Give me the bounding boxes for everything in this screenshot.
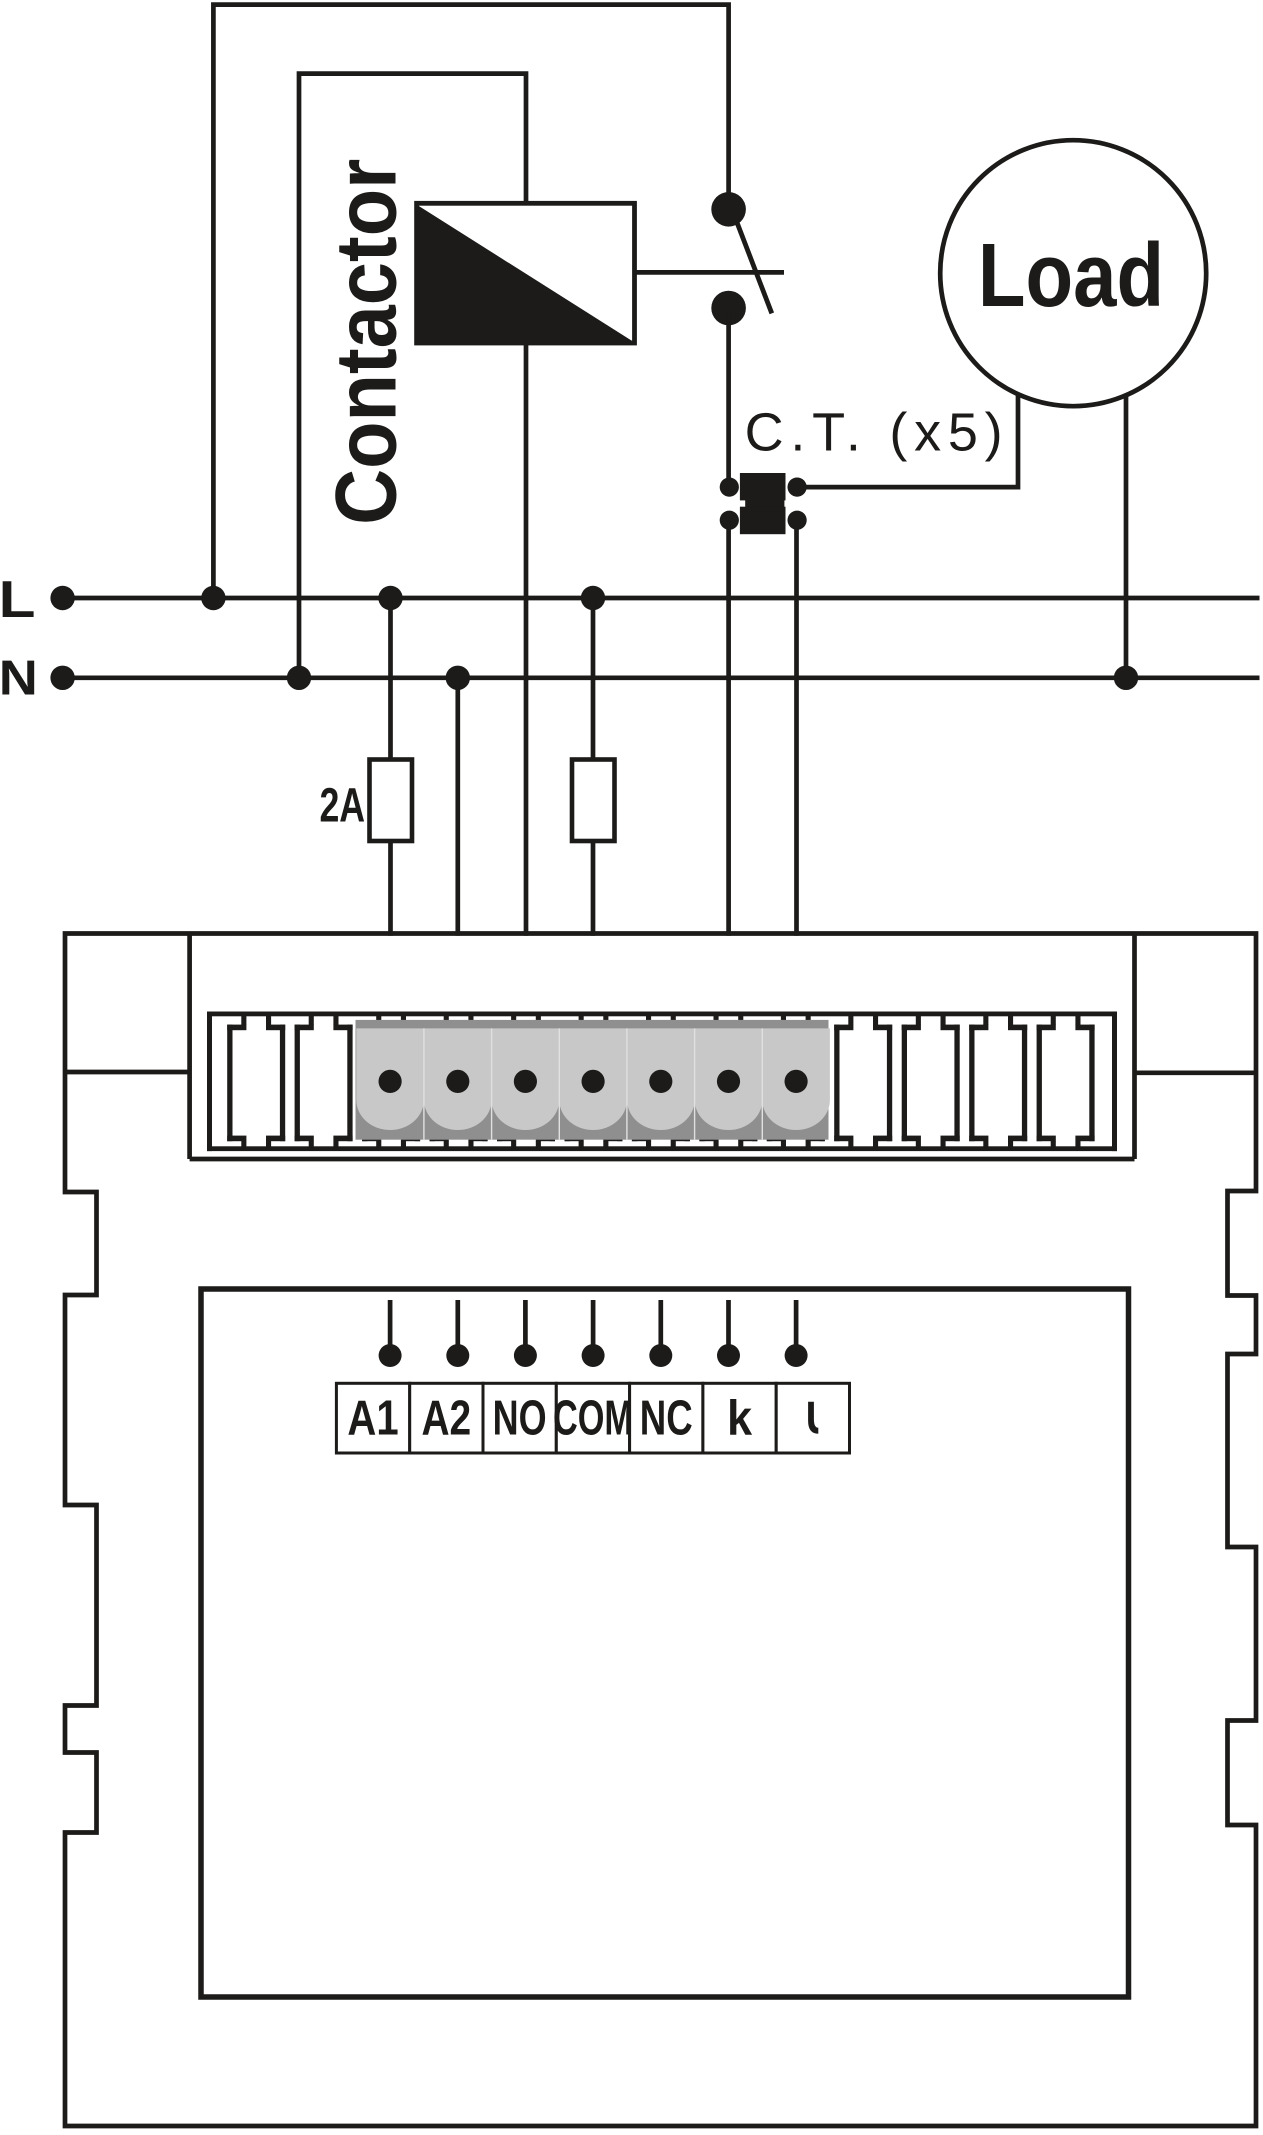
terminal slot 8 bbox=[699, 1016, 757, 1148]
terminal label box NO bbox=[483, 1383, 556, 1453]
current transformer C.T. secondary bar bbox=[740, 507, 786, 535]
terminal label text l (curved foot) bbox=[808, 1402, 818, 1434]
contactor coil K1 box bbox=[417, 203, 635, 343]
connector cell tongue COM bbox=[559, 1028, 627, 1130]
pin dot A1 bbox=[379, 1344, 402, 1367]
junction L / fuse F2 branch bbox=[581, 586, 605, 610]
pin dot NO bbox=[514, 1344, 537, 1367]
connector cell separator 4 bbox=[626, 1028, 627, 1139]
terminal slot 9 bbox=[767, 1016, 825, 1148]
current transformer C.T. primary bar bbox=[740, 473, 786, 500]
C.T. secondary right node dot bbox=[788, 511, 807, 530]
connector cell separator 5 bbox=[694, 1028, 695, 1139]
terminal screw dot NO bbox=[514, 1070, 537, 1093]
pin lead l bbox=[794, 1300, 799, 1356]
wire L rail bbox=[63, 596, 1260, 601]
connector cell tongue NC bbox=[627, 1028, 695, 1130]
svg-text:L: L bbox=[0, 570, 35, 628]
terminal slot 6 bbox=[565, 1016, 623, 1148]
load M1 circle bbox=[940, 140, 1206, 406]
connector cell tongue A1 bbox=[356, 1028, 424, 1130]
fuse F1 body bbox=[370, 760, 413, 842]
terminal label box l bbox=[776, 1383, 849, 1453]
wire N to device terminal A2 bbox=[455, 678, 460, 936]
device enclosure outline bbox=[65, 934, 1256, 2127]
svg-text:COM: COM bbox=[553, 1390, 633, 1444]
wire Load right side to N line bbox=[1124, 395, 1129, 678]
terminal label box COM bbox=[556, 1383, 629, 1453]
terminal slot 10 bbox=[834, 1016, 892, 1148]
pin dot l bbox=[785, 1344, 808, 1367]
junction N / A2 branch bbox=[446, 666, 470, 690]
junction N / inner loop bbox=[287, 666, 311, 690]
terminal cover bottom edge bbox=[190, 1157, 1135, 1162]
svg-text:NO: NO bbox=[493, 1391, 547, 1446]
terminal slot 11 bbox=[902, 1016, 960, 1148]
terminal label box A2 bbox=[410, 1383, 483, 1453]
svg-text:A2: A2 bbox=[421, 1391, 471, 1445]
pin lead COM bbox=[591, 1300, 596, 1356]
C.T. primary right node dot bbox=[788, 478, 807, 497]
terminal slot 7 bbox=[632, 1016, 690, 1148]
connector cell separator 2 bbox=[491, 1028, 492, 1139]
N rail left end dot bbox=[50, 666, 74, 690]
connector cell separator 1 bbox=[423, 1028, 424, 1139]
wire C.T. secondary right to device terminal l bbox=[794, 520, 799, 936]
wire coil bottom to device terminal NO bbox=[524, 342, 529, 936]
wire N rail bbox=[63, 675, 1260, 680]
connector cell tongue l bbox=[762, 1028, 830, 1130]
C.T. secondary left node dot bbox=[720, 511, 739, 530]
svg-text:NC: NC bbox=[640, 1391, 693, 1445]
wire C.T. secondary left to device terminal k bbox=[726, 520, 731, 936]
terminal label box k bbox=[703, 1383, 776, 1453]
svg-text:k: k bbox=[727, 1390, 753, 1445]
contact switch K1 top terminal dot bbox=[711, 192, 746, 227]
C.T. primary left node dot bbox=[720, 478, 739, 497]
pin dot NC bbox=[649, 1344, 672, 1367]
svg-text:Contactor: Contactor bbox=[319, 159, 415, 525]
pin lead A1 bbox=[388, 1300, 393, 1356]
terminal slot 3 bbox=[362, 1016, 420, 1148]
connector cell separator 6 bbox=[762, 1028, 763, 1139]
contact switch K1 bottom terminal dot bbox=[711, 291, 746, 326]
svg-text:A1: A1 bbox=[347, 1391, 398, 1446]
connector cell tongue NO bbox=[492, 1028, 560, 1130]
contact switch K1 blade (diagonal) bbox=[736, 220, 772, 314]
terminal strip frame bbox=[207, 1012, 1117, 1017]
wire inner loop: N line up, across, down to contactor coil top bbox=[299, 74, 526, 678]
terminal screw dot COM bbox=[582, 1070, 605, 1093]
pin lead NO bbox=[523, 1300, 528, 1356]
connector cell tongue A2 bbox=[424, 1028, 492, 1130]
fuse F2 body bbox=[572, 760, 615, 842]
junction L / outer loop bbox=[201, 586, 225, 610]
connector cell tongue k bbox=[695, 1028, 763, 1130]
pin lead k bbox=[726, 1300, 731, 1356]
terminal slot 13 bbox=[1037, 1016, 1095, 1148]
contactor coil K1 filled triangle bbox=[418, 206, 633, 342]
device inner panel box bbox=[201, 1289, 1129, 1997]
pin lead A2 bbox=[455, 1300, 460, 1356]
device top-right compartment shelf bbox=[1135, 1070, 1257, 1075]
junction L / fuse F1 branch bbox=[378, 586, 402, 610]
pin lead NC bbox=[658, 1300, 663, 1356]
L rail left end dot bbox=[50, 586, 74, 610]
svg-text:C.T. (x5): C.T. (x5) bbox=[745, 403, 1010, 463]
svg-text:2A: 2A bbox=[319, 778, 365, 831]
pin dot COM bbox=[582, 1344, 605, 1367]
current transformer C.T. core link bbox=[745, 499, 784, 509]
device top-right compartment divider bbox=[1132, 934, 1137, 1160]
pin dot A2 bbox=[446, 1344, 469, 1367]
svg-text:Load: Load bbox=[978, 225, 1164, 325]
junction N / Load branch bbox=[1114, 666, 1138, 690]
terminal slot 1 bbox=[227, 1016, 285, 1148]
svg-text:N: N bbox=[0, 650, 38, 705]
wire L to fuse F1 to device terminal A1 bbox=[388, 598, 393, 936]
terminal label box A1 bbox=[336, 1383, 409, 1453]
wire C.T. primary to Load bbox=[797, 394, 1018, 487]
device top-left compartment divider bbox=[187, 934, 192, 1160]
pin dot k bbox=[717, 1344, 740, 1367]
device top-left compartment shelf bbox=[65, 1070, 190, 1075]
terminal slot 4 bbox=[430, 1016, 488, 1148]
connector cell separator 3 bbox=[559, 1028, 560, 1139]
terminal screw dot k bbox=[717, 1070, 740, 1093]
terminal screw dot NC bbox=[649, 1070, 672, 1093]
terminal slot 2 bbox=[295, 1016, 353, 1148]
connector block dark base bbox=[356, 1020, 829, 1140]
terminal slot 5 bbox=[497, 1016, 555, 1148]
terminal screw dot l bbox=[785, 1070, 808, 1093]
wire switch bottom to C.T. primary bbox=[726, 308, 731, 487]
terminal screw dot A1 bbox=[379, 1070, 402, 1093]
wire outer loop: L line up, across top, down to switch bbox=[213, 5, 728, 598]
wire L to fuse F2 to device terminal COM bbox=[591, 598, 596, 936]
terminal label box NC bbox=[630, 1383, 703, 1453]
terminal screw dot A2 bbox=[446, 1070, 469, 1093]
wire coil right to switch actuator bbox=[633, 270, 784, 275]
terminal slot 12 bbox=[969, 1016, 1027, 1148]
